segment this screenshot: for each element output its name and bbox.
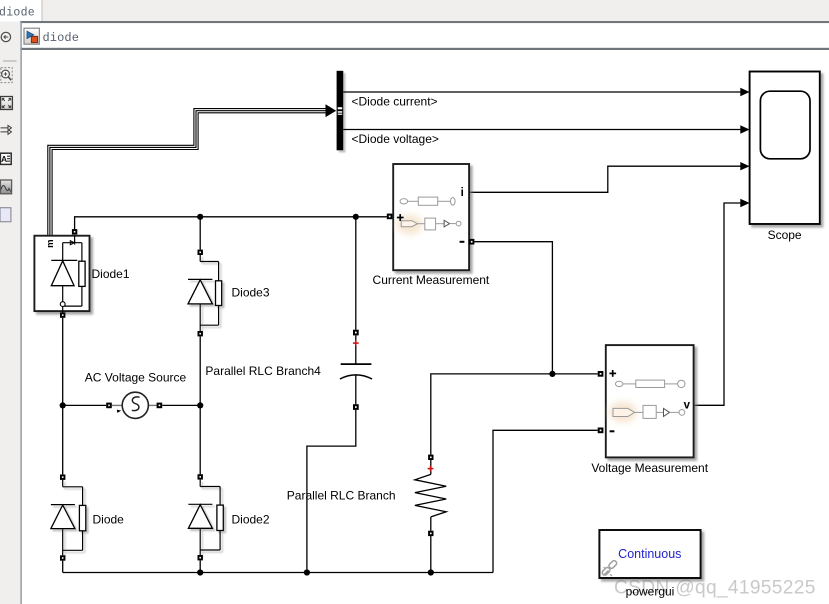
- wire: Diode bottom to bottom rail: [62, 561, 64, 573]
- AC source sine glyph: [132, 397, 140, 411]
- wire: Diode3 bottom to Diode2 top: [199, 336, 201, 474]
- svg-text:Voltage Measurement: Voltage Measurement: [591, 461, 708, 475]
- svg-text:diode: diode: [0, 7, 35, 20]
- Diode3 top port: [198, 250, 203, 255]
- wire: VM minus to bottom rail: [493, 430, 598, 572]
- wire: node to resistor top: [431, 374, 553, 455]
- VM plus sign: [609, 370, 616, 377]
- svg-text:Diode3: Diode3: [232, 286, 270, 300]
- toolbar selected area swatch: [0, 208, 11, 222]
- top tab strip background: [0, 0, 829, 22]
- junction below Diode2: [197, 569, 203, 575]
- Diode2 icon: [188, 480, 223, 555]
- svg-text:AC Voltage Source: AC Voltage Source: [85, 371, 187, 385]
- Diode1 internal diode symbol: [51, 261, 74, 286]
- Diode bottom port: [60, 555, 65, 560]
- Scope block: [750, 72, 820, 225]
- CM icon row 2: [401, 218, 461, 230]
- VM minus port: [598, 428, 604, 434]
- Diode1 top port: [72, 229, 77, 234]
- wire: bus selector out 2 to Scope in 2: [343, 129, 741, 131]
- wire: capacitor branch top: [355, 217, 357, 330]
- resistor top port: [428, 455, 433, 460]
- wire: Diode2 bottom to bottom rail: [199, 560, 201, 572]
- AC Voltage Source stubs: [112, 404, 123, 406]
- wire: rail down to Diode3: [199, 217, 201, 250]
- resistor plus polarity: [428, 466, 434, 472]
- junction below resistor: [428, 569, 434, 575]
- VM icon row 1: [615, 380, 685, 387]
- svg-text:diode: diode: [43, 31, 80, 45]
- svg-text:Current Measurement: Current Measurement: [373, 273, 490, 287]
- Diode1 bottom port: [60, 312, 65, 317]
- CM icon row 1: [400, 197, 455, 205]
- svg-text:<Diode current>: <Diode current>: [352, 95, 438, 109]
- capacitor bottom port: [353, 404, 359, 410]
- toolbar signal lines icon: [1, 125, 12, 134]
- svg-text:Parallel RLC Branch4: Parallel RLC Branch4: [205, 364, 321, 378]
- svg-text:Scope: Scope: [768, 228, 802, 242]
- Diode2 bottom port: [198, 555, 203, 560]
- wire: Voltage Measurement v output to Scope in 4: [694, 203, 741, 405]
- Diode icon (bottom left): [51, 480, 86, 555]
- svg-text:Diode1: Diode1: [92, 267, 130, 281]
- svg-text:Continuous: Continuous: [618, 547, 681, 561]
- Diode3 bottom port: [198, 331, 203, 336]
- left toolbar background: [0, 22, 22, 604]
- VM minus sign: [610, 430, 615, 432]
- junction at AC source left: [60, 402, 66, 408]
- toolbar separator: [3, 60, 17, 62]
- breadcrumb model icon: [24, 28, 39, 44]
- bottom rail wire (node N2): [63, 572, 493, 574]
- svg-text:m: m: [45, 239, 56, 247]
- toolbar fit-to-view icon: [1, 97, 13, 110]
- CM input port: [387, 214, 393, 220]
- AC source left port: [106, 403, 112, 409]
- svg-text:i: i: [461, 187, 464, 199]
- AC Voltage Source body: [122, 392, 148, 418]
- toolbar zoom tool icon: [1, 68, 12, 83]
- toolbar annotation icon: [0, 153, 11, 164]
- Diode2 top port: [198, 474, 203, 479]
- powergui broken-link icon: [601, 560, 617, 576]
- document tab "diode": [0, 0, 42, 22]
- wire: left column Diode1 bottom to Diode top: [62, 318, 64, 475]
- wire: node to VM plus: [552, 373, 597, 375]
- wire: bus selector out 1 to Scope in 1: [343, 91, 741, 93]
- Diode1 anode circle: [60, 302, 65, 307]
- Diode1 small gate glyph: [70, 241, 74, 245]
- VM icon glow: [609, 402, 637, 423]
- top rail wire (node N1): [75, 217, 387, 229]
- junction above Diode3: [197, 214, 203, 220]
- breadcrumb bar: [22, 23, 829, 48]
- capacitor plus polarity: [353, 340, 359, 346]
- toolbar back button: [1, 32, 10, 41]
- bus selector block: [337, 71, 344, 151]
- AC source right port: [157, 403, 163, 409]
- CM minus port: [469, 239, 475, 245]
- Voltage Measurement block: [606, 345, 694, 457]
- svg-text:Diode2: Diode2: [232, 513, 270, 527]
- Parallel RLC Branch resistor: [415, 460, 446, 531]
- junction at AC source right: [197, 402, 203, 408]
- wire bus from Diode1 m-port to Bus Selector (triple line): [48, 109, 326, 235]
- Parallel RLC Branch4 capacitor: [340, 335, 372, 404]
- wire: capacitor bottom to rail: [307, 410, 356, 573]
- CM minus output label: [460, 241, 465, 243]
- breadcrumb text "diode": [43, 31, 80, 45]
- Diode top port: [60, 475, 65, 480]
- junction node at measurement tie point: [549, 371, 555, 377]
- Current Measurement block: [393, 164, 469, 270]
- bus arrowhead into selector: [326, 104, 337, 117]
- wire: CM minus output down to node: [474, 242, 552, 374]
- Diode3 icon: [188, 255, 222, 331]
- svg-text:v: v: [684, 399, 691, 411]
- CM icon glow: [397, 215, 423, 235]
- Diode1 block (selected, boxed): [34, 236, 89, 311]
- VM plus port: [598, 371, 604, 377]
- resistor bottom port: [428, 531, 433, 536]
- AC Voltage Source wires: [63, 404, 106, 406]
- CM plus sign: [397, 214, 404, 221]
- wire: Current Measurement i output to Scope in 3: [469, 166, 741, 192]
- breadcrumb bar bottom border: [20, 48, 829, 50]
- powergui block: [599, 530, 700, 578]
- breadcrumb bar top border: [20, 21, 829, 23]
- svg-text:<Diode voltage>: <Diode voltage>: [352, 132, 439, 146]
- svg-text:A: A: [1, 154, 7, 164]
- junction capacitor return: [304, 569, 310, 575]
- capacitor top port: [353, 330, 359, 336]
- VM icon row 2: [613, 405, 685, 418]
- junction above Parallel RLC Branch4: [353, 214, 359, 220]
- wire: resistor bottom to rail: [430, 536, 432, 573]
- svg-text:Parallel RLC Branch: Parallel RLC Branch: [287, 489, 396, 503]
- toolbar image/curve icon: [0, 180, 11, 194]
- svg-text:Diode: Diode: [93, 513, 125, 527]
- svg-text:powergui: powergui: [626, 584, 675, 598]
- AC source polarity mark: [117, 410, 121, 413]
- Diode1 snubber resistor: [79, 261, 85, 286]
